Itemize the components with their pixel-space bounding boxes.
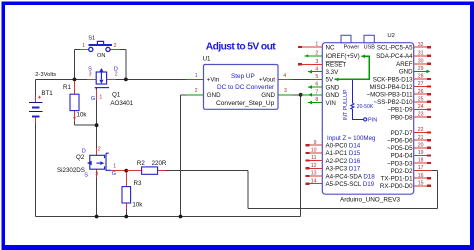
svg-text:SDA-PC4-A4: SDA-PC4-A4 [376,53,413,60]
U2 pin 26 ~MOSI-PB3-D11 [366,89,431,99]
svg-text:1: 1 [99,94,102,100]
svg-text:4: 4 [283,73,286,79]
power jack tab [341,35,351,42]
svg-text:+Vout: +Vout [259,77,275,84]
wire battery vertical bottom [35,123,37,217]
svg-text:10k: 10k [77,112,88,119]
svg-text:R1: R1 [63,84,71,91]
svg-text:GND: GND [399,69,413,76]
node B junction (Q1 drain/S1) [124,78,128,82]
U2 pin 5 5V [310,74,334,84]
resistor R3 10k [122,172,143,209]
USB tab [364,35,374,42]
rail junction U1 GND [179,215,183,219]
wire R1 bottom to gate node [74,122,76,126]
U2 pin 10 A1-PC1 [305,148,361,158]
svg-text:17: 17 [418,165,424,171]
svg-text:~PB1-D9: ~PB1-D9 [387,107,413,114]
svg-text:A3-PC3 D17: A3-PC3 D17 [326,166,361,173]
svg-text:Adjust to 5V out: Adjust to 5V out [206,41,277,52]
svg-text:A2-PC2 D16: A2-PC2 D16 [326,158,361,165]
svg-text:20: 20 [418,142,424,148]
wire internal IOREF to 5V (green) [335,56,370,79]
svg-text:PB0-D8: PB0-D8 [391,114,413,121]
svg-text:GND: GND [261,92,275,99]
svg-text:Power: Power [344,44,360,50]
svg-text:3: 3 [315,59,318,65]
U1 pin 3 GND [278,94,292,96]
svg-text:AO3401: AO3401 [110,100,133,107]
wire Q2 gate to node C [118,170,127,172]
svg-text:SCK-PB5-D13: SCK-PB5-D13 [373,76,413,83]
svg-text:1: 1 [315,42,318,48]
resistor R1 [63,81,87,122]
svg-text:A1-PC1 D15: A1-PC1 D15 [326,150,361,157]
rail junction R3 [124,215,128,219]
svg-text:8: 8 [315,97,318,103]
svg-text:~SS-PB2-D10: ~SS-PB2-D10 [374,99,414,106]
svg-text:~MOSI-PB3-D11: ~MOSI-PB3-D11 [366,92,413,99]
wire node A to Q1 source [75,78,88,80]
U2 pin 9 A0-PC0 [305,140,361,150]
svg-text:A0-PC0 D14: A0-PC0 D14 [326,143,361,150]
svg-text:14: 14 [311,178,317,184]
node A junction (battery/R1/S1) [73,78,77,82]
svg-text:23: 23 [418,112,424,118]
wire Q1 gate down to gate node [96,100,98,125]
svg-text:11: 11 [311,155,316,161]
svg-text:RX-PD0-D0: RX-PD0-D0 [380,183,413,190]
svg-text:RESET: RESET [326,62,347,69]
svg-text:Si2302DS: Si2302DS [57,167,85,174]
U2 pin 11 A2-PC2 [305,155,361,165]
svg-text:30: 30 [418,58,424,64]
U2 pin 12 A3-PC3 [305,163,361,173]
svg-text:IOREF(+5V): IOREF(+5V) [326,53,360,60]
wire Q1 drain to node B [116,78,126,80]
U2 pin 13 A4-PC4-SDA [305,171,375,181]
svg-text:U1: U1 [203,56,211,63]
svg-text:GND: GND [326,92,340,99]
svg-text:5: 5 [315,74,318,80]
svg-text:G: G [91,96,95,102]
U2 pin 3 RESET [298,59,346,69]
U2 pin 27 MISO-PB4-D12 [370,81,431,91]
svg-text:10: 10 [311,148,317,154]
gate node junction (R1/Q1 gate/Q2 drain) [95,123,99,127]
U2 pin 17 PD2-D2 [391,165,432,175]
svg-text:NC: NC [326,44,335,51]
rail junction Q2 source [95,215,99,219]
switch S1 [80,36,119,59]
wire node B to U1 +Vin [126,78,186,80]
svg-text:16: 16 [418,173,424,179]
svg-text:1: 1 [195,73,198,79]
node C junction (Q2 gate/R2/R3) [124,169,128,173]
svg-text:7: 7 [315,89,318,95]
svg-text:Step UP: Step UP [231,73,255,80]
svg-text:R3: R3 [134,180,142,187]
U2 pin 20 ~PD5-D5 [387,142,431,152]
U2 pin 14 A5-PC5-SCL [305,178,374,188]
wire GND vertical to bottom rail [300,95,302,217]
U1 pin 2 GND [186,94,204,96]
svg-text:29: 29 [418,66,424,72]
svg-text:2: 2 [195,88,198,94]
svg-text:27: 27 [418,81,424,87]
U2 pin 23 PB0-D8 [391,112,431,122]
U1 pin 1 +Vin [186,78,204,80]
U2 pin 18 ~PD3-D3 [387,158,431,168]
transistor Q1 AO3401 [87,67,134,107]
svg-text:BT1: BT1 [41,90,53,97]
svg-text:3.3V: 3.3V [326,69,340,76]
U2 pin 4 3.3V [308,66,339,76]
svg-text:13: 13 [311,171,317,177]
U2 pin 1 NC [298,42,335,52]
svg-text:SCL-PC5-A5: SCL-PC5-A5 [377,45,413,52]
svg-text:5V: 5V [326,77,334,84]
U2 pin 19 PD4-D4 [391,150,432,160]
svg-text:22: 22 [418,127,424,133]
U2 pin 31 SDA-PC4-A4 [376,50,431,60]
svg-text:24: 24 [418,104,424,110]
U2 pin 21 ~PD6-D6 [387,135,431,145]
svg-text:2: 2 [315,51,318,57]
svg-text:Q1: Q1 [112,92,121,99]
svg-text:A5-PC5-SCL D19: A5-PC5-SCL D19 [326,181,375,188]
svg-text:PD7-D7: PD7-D7 [391,130,414,137]
svg-text:21: 21 [418,135,424,141]
svg-text:+Vin: +Vin [207,77,220,84]
svg-text:USB: USB [364,44,376,50]
svg-text:1: 1 [82,43,85,49]
wire Q2 source to ground rail [96,178,98,217]
U2 pin 29 GND [399,66,431,76]
GND junction at Arduino pin 7 [299,93,303,97]
U2 pin 28 SCK-PB5-D13 [373,74,431,84]
svg-text:19: 19 [418,150,424,156]
U2 pin 7 GND [301,89,340,99]
svg-text:U2: U2 [387,33,395,39]
svg-text:12: 12 [311,163,317,169]
U2 pin 22 PD7-D7 [391,127,432,137]
svg-text:PIN: PIN [368,118,377,124]
battery BT1 [29,90,53,122]
wire U1 GND left [181,94,187,96]
svg-text:18: 18 [418,158,424,164]
svg-text:28: 28 [418,74,424,80]
wire R2 right to Arduino D2 [166,170,248,172]
svg-text:9: 9 [314,140,317,146]
svg-text:2: 2 [115,71,118,77]
resistor R2 220R [126,160,167,174]
IC U2 Arduino UNO body [322,43,413,195]
svg-text:Arduino_UNO_REV3: Arduino_UNO_REV3 [340,197,400,204]
U2 pin 25 ~SS-PB2-D10 [374,96,432,106]
svg-text:15: 15 [418,180,424,186]
svg-text:G: G [112,171,116,177]
svg-text:AREF: AREF [396,61,413,68]
svg-text:VIN: VIN [326,100,336,107]
U1 pin 4 +Vout [278,78,293,80]
U2 pin 24 ~PB1-D9 [387,104,431,114]
wire U1 GND right to GND net [292,94,300,96]
svg-text:26: 26 [418,89,424,95]
svg-text:DC to DC Converter: DC to DC Converter [217,84,275,91]
svg-text:INT PULLUP: INT PULLUP [343,89,349,120]
svg-text:2: 2 [114,43,117,49]
svg-text:2-3Volts: 2-3Volts [35,72,56,78]
wire battery vertical top [35,79,37,95]
svg-text:GND: GND [326,84,340,91]
svg-text:~PD3-D3: ~PD3-D3 [387,160,413,167]
svg-text:Q2: Q2 [76,154,85,161]
svg-text:~PD5-D5: ~PD5-D5 [387,145,413,152]
svg-text:R2: R2 [137,160,145,167]
wire node C to R2 [126,170,135,172]
svg-text:20-50K: 20-50K [357,104,374,110]
svg-text:220R: 220R [152,160,167,167]
svg-text:6: 6 [315,82,318,88]
U2 pin 16 TX-PD1-D1 [381,173,431,183]
svg-text:ON: ON [97,53,105,59]
wire gate node down to Q2 drain [96,125,98,148]
internal pull-up resistor 20-50K [343,80,377,123]
svg-text:4: 4 [315,66,318,72]
svg-text:TX-PD1-D1: TX-PD1-D1 [381,176,414,183]
wire R3 bottom to ground rail [125,209,127,217]
svg-text:31: 31 [418,50,424,56]
converter module U1 DC to DC Converter [186,56,293,110]
wire S1 left leg [74,49,76,79]
svg-text:3: 3 [284,88,287,94]
U2 pin 30 AREF [396,58,431,68]
U2 pin 6 GND [308,82,340,92]
svg-text:1: 1 [113,163,116,169]
transistor Q2 Si2302DS [57,146,118,178]
wire bottom ground rail [36,216,301,218]
svg-text:10k: 10k [132,202,143,209]
svg-text:GND: GND [207,92,221,99]
U2 pin 15 RX-PD0-D0 [380,180,431,190]
wire battery+ to node A [36,78,75,80]
svg-text:MISO-PB4-D12: MISO-PB4-D12 [370,84,414,91]
svg-text:Input Z ≈ 100Meg: Input Z ≈ 100Meg [327,135,376,142]
svg-text:Converter_Step_Up: Converter_Step_Up [216,100,275,107]
svg-text:25: 25 [418,96,424,102]
svg-text:PD4-D4: PD4-D4 [391,153,414,160]
U2 pin 2 IOREF(+5V) [305,51,360,61]
svg-text:32: 32 [418,42,424,48]
U2 pin 32 SCL-PC5-A5 [377,42,431,52]
wire U1 +Vout to Arduino 5V [293,78,311,80]
svg-text:~PD6-D6: ~PD6-D6 [387,138,413,145]
svg-text:2: 2 [98,146,101,152]
svg-text:3: 3 [95,171,98,177]
wire S1 right leg [119,48,126,50]
U2 pin 8 VIN [308,97,336,107]
svg-text:3: 3 [89,71,92,77]
svg-text:A4-PC4-SDA D18: A4-PC4-SDA D18 [326,173,376,180]
svg-text:S1: S1 [88,36,95,42]
svg-text:PD2-D2: PD2-D2 [391,168,414,175]
